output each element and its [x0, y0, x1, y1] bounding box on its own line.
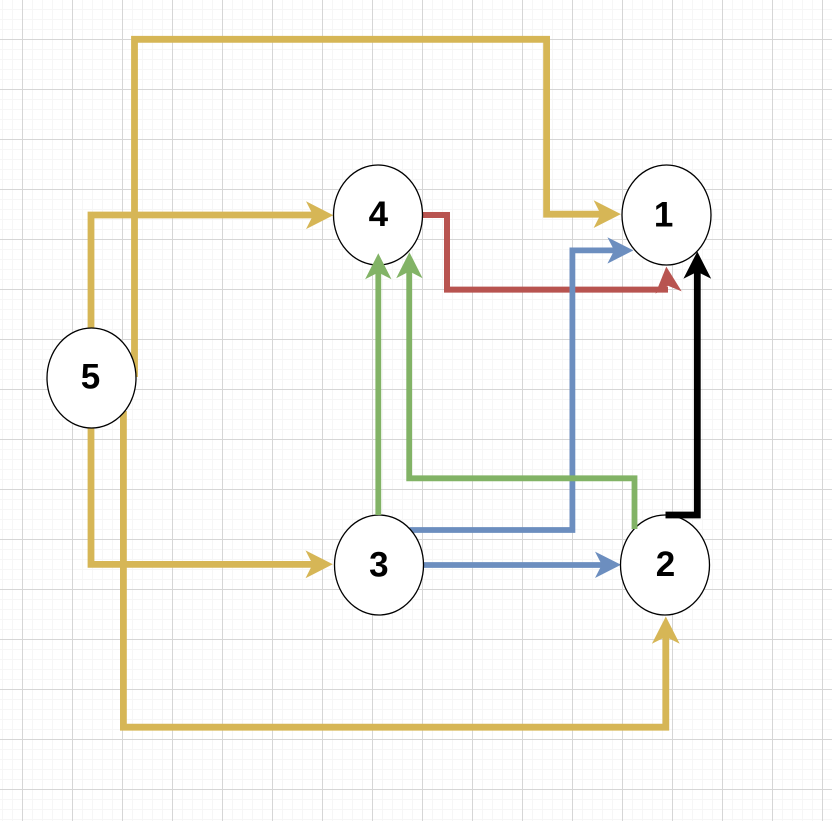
edge 5->1 yellow — [135, 39, 621, 377]
node 2 — [621, 515, 710, 615]
edge 3->2 blue — [424, 552, 621, 578]
edge 4->1 red — [422, 215, 682, 294]
edge 2->4 green — [396, 252, 634, 529]
node 5 — [47, 328, 136, 428]
edge 5->4 yellow — [91, 201, 333, 330]
node 3 — [335, 515, 424, 615]
svg-text:5: 5 — [81, 358, 100, 397]
svg-text:4: 4 — [369, 195, 389, 234]
edge 5->3 yellow — [91, 426, 333, 578]
edge 5->2 yellow — [123, 411, 679, 727]
node 4 — [334, 165, 423, 265]
svg-text:1: 1 — [654, 195, 673, 234]
edge 2->1 black — [666, 252, 712, 516]
svg-text:3: 3 — [369, 546, 388, 585]
node 1 — [622, 165, 711, 265]
svg-text:2: 2 — [656, 545, 675, 584]
edge 3->1 blue — [410, 237, 634, 530]
edge 3->4 green — [365, 253, 391, 515]
